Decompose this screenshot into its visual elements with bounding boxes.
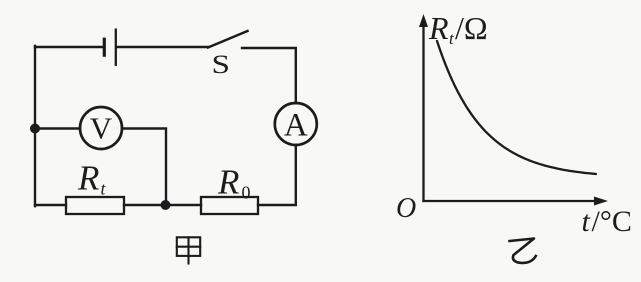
wire: Rt to bottom-left corner bbox=[35, 204, 66, 206]
caption 甲 (figure A) bbox=[177, 237, 200, 263]
svg-text:V: V bbox=[90, 111, 113, 146]
svg-text:R: R bbox=[428, 10, 449, 46]
resistor Rt bbox=[66, 197, 124, 214]
svg-text:0: 0 bbox=[242, 183, 251, 203]
svg-text:R: R bbox=[217, 163, 239, 202]
svg-text:S: S bbox=[212, 50, 231, 79]
wire: R0 to junction bbox=[166, 204, 202, 206]
junction node (left rail, voltmeter tap) bbox=[30, 124, 40, 134]
curve: Rt vs t (exponential decay) bbox=[437, 41, 596, 174]
svg-text:/°C: /°C bbox=[592, 205, 632, 238]
svg-text:t: t bbox=[101, 179, 107, 199]
y-axis (Rt axis) with arrowhead bbox=[419, 14, 428, 201]
wire: ammeter down to bottom-right corner and left to R0 bbox=[258, 145, 296, 205]
label R0 bbox=[217, 163, 251, 203]
svg-text:t: t bbox=[582, 205, 591, 238]
battery BT1 bbox=[104, 30, 116, 65]
svg-text:A: A bbox=[284, 107, 308, 143]
svg-text:/Ω: /Ω bbox=[455, 10, 488, 46]
voltmeter V bbox=[80, 107, 122, 149]
wire: top-left horizontal from left rail to battery bbox=[35, 46, 103, 48]
x-axis label t/°C bbox=[582, 205, 632, 238]
wire: switch right contact to top-right corner and down to ammeter bbox=[242, 48, 296, 103]
svg-text:O: O bbox=[396, 193, 416, 224]
x-axis (t axis) with arrowhead bbox=[424, 197, 609, 206]
svg-text:R: R bbox=[77, 159, 99, 198]
switch S (open blade) bbox=[208, 31, 248, 48]
wire: left junction to voltmeter bbox=[35, 127, 80, 129]
wire: junction to Rt bbox=[124, 204, 166, 206]
junction node (bottom, Rt/R0/voltmeter tap) bbox=[161, 200, 171, 210]
caption 乙 (figure B) bbox=[510, 239, 536, 263]
wire: battery to switch bbox=[117, 46, 208, 48]
resistor R0 bbox=[201, 197, 258, 214]
wire: left vertical rail bbox=[34, 46, 36, 206]
wire: voltmeter right lead down to bottom junction bbox=[122, 129, 166, 206]
label Rt bbox=[77, 159, 107, 199]
y-axis label Rt/Ω bbox=[428, 10, 488, 48]
ammeter A bbox=[275, 103, 317, 145]
